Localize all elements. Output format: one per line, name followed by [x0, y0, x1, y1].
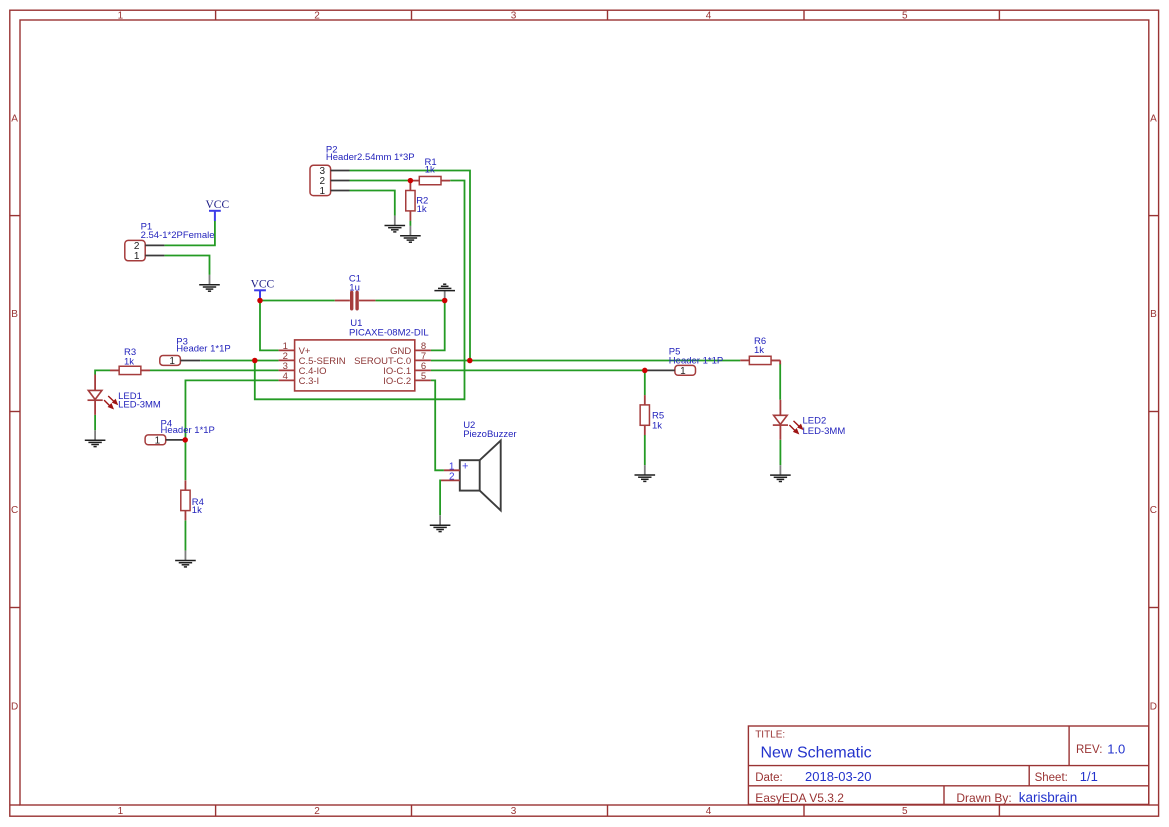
- svg-text:C.3-I: C.3-I: [299, 376, 320, 387]
- svg-text:Drawn By:: Drawn By:: [956, 791, 1011, 805]
- svg-text:5: 5: [902, 11, 908, 22]
- svg-text:1: 1: [320, 186, 326, 197]
- svg-text:4: 4: [706, 806, 712, 817]
- svg-text:Header 1*1P: Header 1*1P: [161, 425, 215, 436]
- svg-text:TITLE:: TITLE:: [755, 730, 785, 741]
- svg-text:D: D: [11, 702, 18, 713]
- svg-text:3: 3: [511, 806, 517, 817]
- svg-text:4: 4: [283, 371, 288, 382]
- svg-text:1: 1: [118, 806, 124, 817]
- svg-text:1k: 1k: [192, 505, 202, 516]
- svg-text:EasyEDA V5.3.2: EasyEDA V5.3.2: [755, 791, 844, 805]
- svg-text:1.0: 1.0: [1107, 742, 1125, 757]
- svg-text:Date:: Date:: [755, 772, 783, 784]
- svg-text:1: 1: [680, 366, 686, 377]
- svg-text:2: 2: [314, 806, 320, 817]
- svg-text:A: A: [1150, 114, 1157, 125]
- svg-text:B: B: [11, 309, 18, 320]
- svg-text:1k: 1k: [652, 420, 662, 431]
- svg-text:4: 4: [706, 11, 712, 22]
- svg-text:1: 1: [155, 436, 161, 447]
- svg-text:VCC: VCC: [205, 199, 229, 211]
- svg-text:LED-3MM: LED-3MM: [118, 400, 161, 411]
- svg-text:3: 3: [511, 11, 517, 22]
- svg-text:1/1: 1/1: [1080, 769, 1098, 784]
- svg-text:2: 2: [449, 472, 455, 483]
- svg-text:PICAXE-08M2-DIL: PICAXE-08M2-DIL: [349, 327, 429, 338]
- svg-text:5: 5: [421, 371, 426, 382]
- svg-text:1k: 1k: [754, 345, 764, 356]
- svg-text:New Schematic: New Schematic: [761, 744, 872, 761]
- svg-text:LED2: LED2: [803, 415, 827, 426]
- svg-text:C: C: [11, 505, 18, 516]
- svg-text:2: 2: [314, 11, 320, 22]
- svg-text:PiezoBuzzer: PiezoBuzzer: [463, 429, 516, 440]
- svg-text:B: B: [1150, 309, 1157, 320]
- svg-text:karisbrain: karisbrain: [1019, 790, 1078, 805]
- svg-text:Header 1*1P: Header 1*1P: [669, 355, 723, 366]
- svg-text:IO-C.2: IO-C.2: [383, 376, 411, 387]
- svg-text:REV:: REV:: [1076, 744, 1102, 756]
- svg-text:VCC: VCC: [251, 279, 275, 291]
- svg-text:1k: 1k: [425, 164, 435, 175]
- svg-text:Sheet:: Sheet:: [1035, 772, 1068, 784]
- svg-text:1k: 1k: [124, 357, 134, 368]
- svg-text:A: A: [11, 114, 18, 125]
- svg-text:2018-03-20: 2018-03-20: [805, 769, 872, 784]
- svg-text:1k: 1k: [417, 204, 427, 215]
- svg-text:5: 5: [902, 806, 908, 817]
- svg-text:1: 1: [134, 251, 140, 262]
- svg-text:C: C: [1150, 505, 1157, 516]
- svg-text:1: 1: [118, 11, 124, 22]
- svg-text:D: D: [1150, 702, 1157, 713]
- svg-text:Header 1*1P: Header 1*1P: [176, 344, 230, 355]
- svg-text:Header2.54mm 1*3P: Header2.54mm 1*3P: [326, 152, 415, 163]
- svg-text:1u: 1u: [349, 282, 360, 293]
- svg-text:2.54-1*2PFemale: 2.54-1*2PFemale: [141, 230, 215, 241]
- svg-text:LED-3MM: LED-3MM: [803, 426, 846, 437]
- svg-text:+: +: [462, 460, 468, 472]
- svg-text:1: 1: [169, 356, 175, 367]
